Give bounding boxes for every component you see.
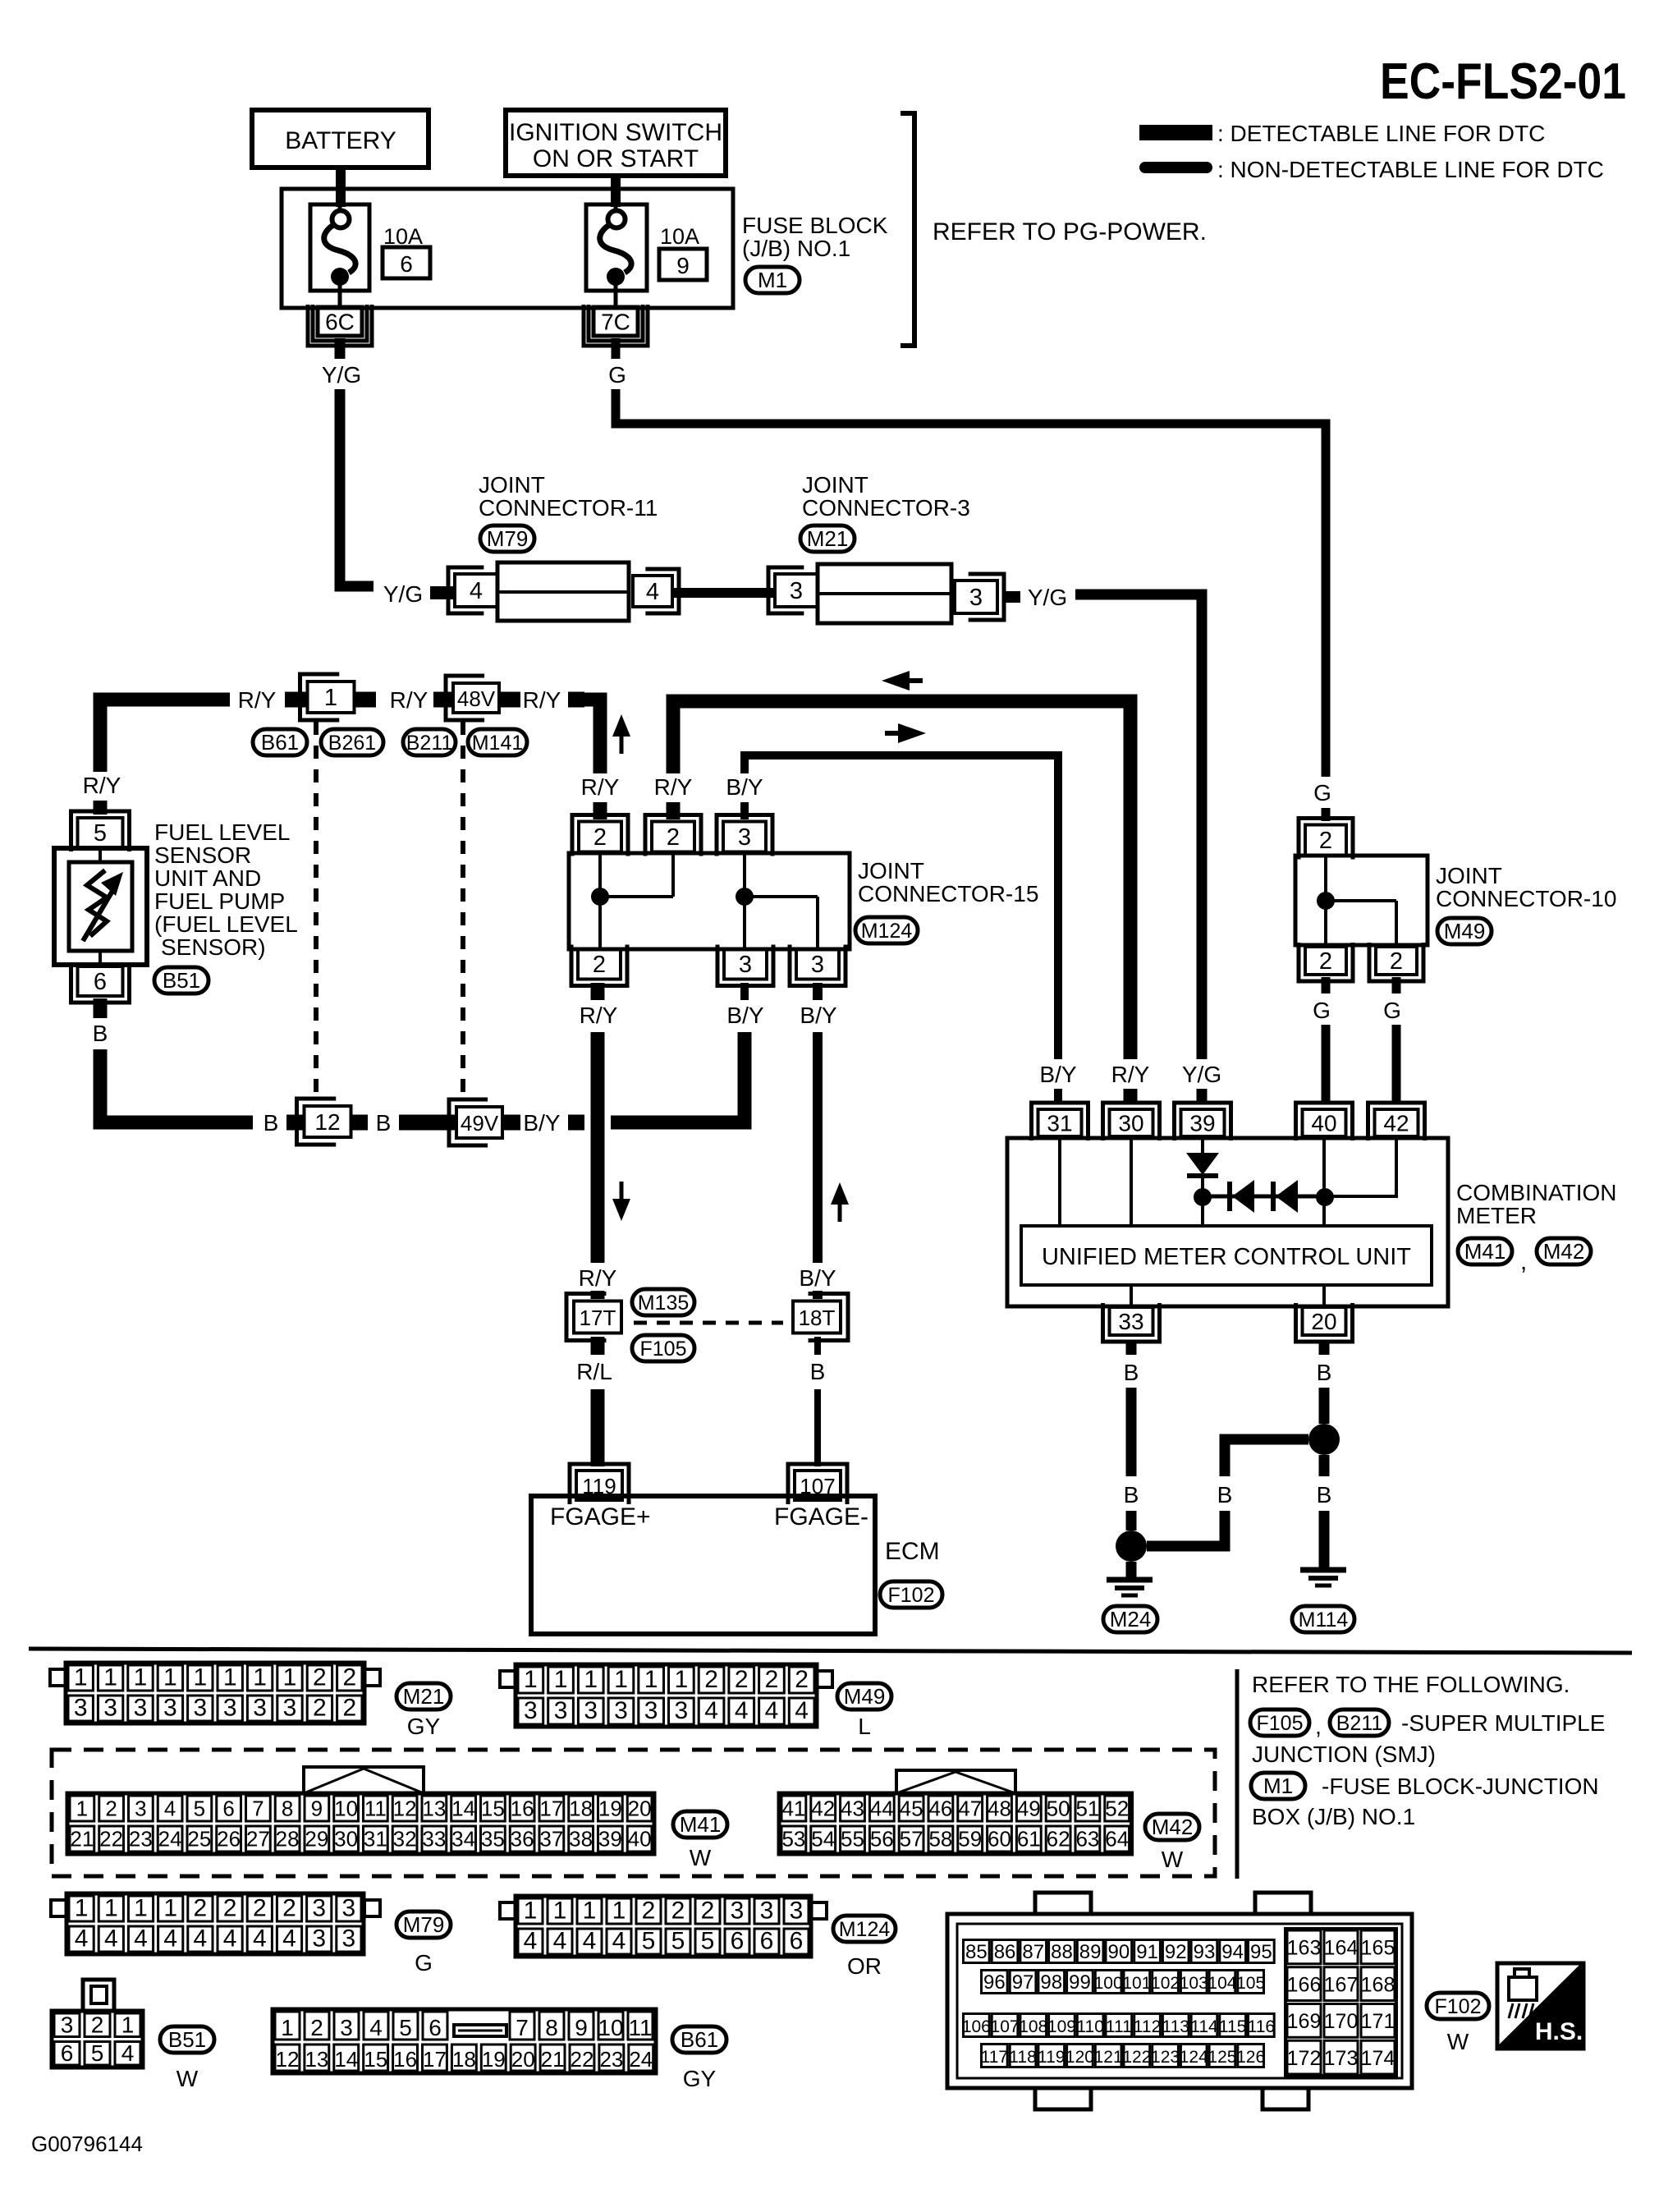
svg-text:125: 125 [1208,2048,1236,2067]
svg-text:1: 1 [524,1666,538,1693]
svg-text:4: 4 [164,1797,176,1821]
fuse F9 number box 9 [659,249,707,280]
svg-text:6: 6 [760,1928,774,1955]
svg-text:3: 3 [738,824,751,851]
svg-text:(FUEL LEVEL: (FUEL LEVEL [154,911,298,937]
svg-text:2: 2 [194,1895,208,1922]
connector view M41 oval [673,1811,727,1838]
svg-text:48V: 48V [457,686,496,711]
svg-text:4: 4 [553,1928,567,1955]
svg-text:3: 3 [790,1898,804,1925]
svg-text:R/Y: R/Y [523,687,561,713]
joint connector-10 pin 2b bottom [1376,947,1417,975]
svg-text:M21: M21 [807,526,849,551]
svg-text:G: G [1313,998,1331,1023]
svg-text:39: 39 [598,1827,622,1852]
joint connector-3 oval M21 [800,525,855,552]
svg-text:10: 10 [334,1797,358,1821]
svg-text:JOINT: JOINT [1436,863,1502,888]
svg-text:116: 116 [1248,2017,1275,2036]
wire B/Y M124 to 18T [813,1032,823,1263]
svg-text:3: 3 [969,585,983,611]
dashed line 17T-18T [634,1321,783,1325]
separator line [29,1649,1632,1653]
svg-text:33: 33 [422,1827,446,1852]
svg-text:5: 5 [701,1928,715,1955]
svg-text:60: 60 [988,1827,1011,1852]
svg-text:1: 1 [283,1664,297,1691]
joint connector-10 pin 2 top [1305,825,1346,856]
joint connector-15 body [569,853,850,949]
connector 7C [593,307,638,336]
meter internal diode down [1201,1138,1204,1153]
svg-text:FUEL LEVEL: FUEL LEVEL [154,819,290,845]
fuel level sensor resistor [87,870,107,936]
wire R/Y stub below M124 pin 2 [591,983,605,1000]
svg-text:B261: B261 [328,732,376,755]
fuse F6 number box 6 [383,247,430,278]
svg-text:B: B [264,1110,279,1136]
joint connector-11 body [497,562,629,621]
svg-text:15: 15 [481,1797,505,1821]
svg-text:M42: M42 [1543,1239,1585,1264]
svg-text:13: 13 [422,1797,446,1821]
svg-text:2: 2 [313,1695,327,1722]
svg-text:M114: M114 [1299,1609,1349,1631]
svg-text:M124: M124 [839,1918,891,1941]
svg-text:G: G [1313,780,1331,805]
svg-text:16: 16 [393,2047,417,2072]
wire B to ground M114 [1319,1511,1330,1567]
wire B stub c [399,1115,455,1131]
svg-text:99: 99 [1069,1971,1091,1994]
wire stub into M124 pin3a [740,802,749,819]
svg-text:10A: 10A [660,224,699,249]
svg-text:23: 23 [129,1827,153,1852]
wire ignition to fuse block [611,176,621,207]
svg-text:SENSOR): SENSOR) [161,934,266,960]
wire Y/G stub below 6C [335,338,346,359]
meter internal line 30 [1130,1138,1133,1226]
wire R/Y stub e [568,692,584,708]
svg-text:48: 48 [988,1797,1011,1821]
svg-text:3: 3 [312,1925,326,1953]
svg-text:55: 55 [841,1827,864,1852]
svg-text:1: 1 [193,1664,207,1691]
svg-text:2: 2 [667,824,680,851]
wire B stub below pin 6 [94,998,108,1018]
wire G to right [616,389,1326,777]
svg-text:M79: M79 [487,526,529,551]
svg-text:3: 3 [135,1797,146,1821]
svg-text:4: 4 [470,578,483,604]
svg-text:BOX (J/B) NO.1: BOX (J/B) NO.1 [1252,1804,1415,1829]
connector view M124 oval [833,1916,896,1942]
connector view F102 [947,1914,1412,2088]
oval M141 [468,729,527,755]
svg-text:90: 90 [1107,1941,1130,1963]
wire B/Y into 18T [813,1291,823,1299]
wire R/Y into 17T [591,1291,605,1299]
ECM oval F102 [880,1581,942,1608]
connector view M41 bracket [304,1767,424,1793]
dashed line B211-M141 [461,722,465,1099]
wire G into pin 40 [1322,1059,1331,1104]
svg-text:64: 64 [1105,1827,1129,1852]
meter oval M42 [1537,1238,1591,1264]
ECM pin 107 [795,1471,841,1500]
joint connector-3 body [818,564,951,623]
svg-text:ECM: ECM [885,1538,940,1565]
arrow left on R/Y line [882,671,910,691]
meter pin 39 [1181,1109,1225,1136]
fuel level sensor pin 5 [78,818,123,847]
wire B stub a [286,1115,305,1131]
meter pin 40 [1303,1109,1346,1136]
svg-text:111: 111 [1106,2017,1132,2036]
svg-text:117: 117 [981,2048,1008,2067]
svg-text:-SUPER MULTIPLE: -SUPER MULTIPLE [1401,1710,1605,1736]
svg-text:,: , [1315,1714,1322,1739]
joint connector-15 pin 2b top [652,822,694,852]
svg-text:4: 4 [194,1925,208,1953]
fuel level sensor oval B51 [154,967,209,994]
meter internal line 40 [1322,1138,1326,1226]
svg-text:M24: M24 [1110,1607,1152,1631]
svg-text:EC-FLS2-01: EC-FLS2-01 [1380,53,1626,110]
joint connector-15 oval M124 [855,917,918,943]
svg-text:123: 123 [1151,2048,1180,2067]
connector view F102 oval [1427,1993,1489,2019]
svg-text:3: 3 [554,1697,568,1724]
inline connector 1 B61-B261 [308,681,355,713]
svg-text:B211: B211 [406,732,453,755]
svg-text:G: G [415,1950,433,1976]
oval B61 [253,729,307,755]
svg-text:110: 110 [1076,2017,1103,2036]
wire B lower [814,1389,821,1466]
svg-text:4: 4 [163,1925,177,1953]
wire stub to ground M24 [1126,1562,1137,1577]
svg-text:1: 1 [163,1895,177,1922]
svg-text:(J/B) NO.1: (J/B) NO.1 [742,236,850,261]
joint connector-15 pin 2a top [579,822,621,852]
svg-text:1: 1 [223,1664,237,1691]
svg-text:2: 2 [91,2012,104,2037]
svg-text:63: 63 [1075,1827,1099,1852]
svg-text:Y/G: Y/G [322,362,361,388]
svg-text:R/Y: R/Y [390,687,428,713]
svg-text:B/Y: B/Y [800,1003,836,1028]
wire G stub into M49 pin [1322,808,1331,821]
combination meter box [1007,1138,1448,1306]
svg-text:88: 88 [1051,1941,1073,1963]
svg-text:CONNECTOR-10: CONNECTOR-10 [1436,886,1616,911]
wire R/Y corner down to M124 [584,700,600,773]
joint connector-15 internal wiring [598,853,602,949]
svg-text:FGAGE-: FGAGE- [774,1503,868,1531]
svg-text:94: 94 [1221,1941,1244,1963]
svg-text:2: 2 [735,1666,749,1693]
svg-text:3: 3 [193,1695,207,1722]
svg-text:Y/G: Y/G [1028,585,1067,610]
svg-text:22: 22 [571,2047,594,2072]
meter internal line 20 [1322,1285,1326,1306]
wire B/Y horizontal [745,755,1058,1059]
wire B stub b [351,1115,368,1131]
svg-text:18: 18 [569,1797,593,1821]
svg-text:174: 174 [1361,2047,1395,2070]
svg-text:126: 126 [1236,2048,1265,2067]
svg-text:M41: M41 [680,1812,722,1837]
svg-text:4: 4 [795,1697,809,1724]
wire G lower to pin 42 [1392,1025,1401,1059]
joint connector-15 pin 3a top [723,822,766,852]
svg-text:M79: M79 [403,1912,445,1937]
meter pin 20 [1303,1307,1346,1335]
meter internal line 33 [1130,1285,1133,1306]
svg-text:30: 30 [334,1827,358,1852]
svg-text:3: 3 [811,952,824,978]
svg-text:2: 2 [1319,828,1332,854]
wire R/Y stub into pin 5 [94,801,108,815]
svg-text:M49: M49 [1444,919,1486,943]
svg-text:1: 1 [253,1664,267,1691]
svg-text:2: 2 [313,1664,327,1691]
svg-text:24: 24 [629,2047,653,2072]
svg-text:FUEL PUMP: FUEL PUMP [154,888,285,914]
svg-text:1: 1 [75,1895,89,1922]
junction dot right [1308,1424,1340,1455]
svg-text:7: 7 [516,2015,529,2040]
svg-text:119: 119 [1038,2048,1065,2067]
wire B mid left [1126,1388,1137,1476]
svg-text:2: 2 [593,824,607,851]
wire Y/G to meter pin 39 [1075,594,1202,1059]
legend detectable line bar [1139,125,1212,140]
svg-text:5: 5 [399,2015,412,2040]
svg-text:122: 122 [1122,2048,1151,2067]
svg-text:164: 164 [1324,1937,1359,1960]
svg-text:IGNITION SWITCH: IGNITION SWITCH [509,119,722,146]
svg-text:2: 2 [282,1895,296,1922]
svg-text:120: 120 [1066,2048,1094,2067]
svg-text:3: 3 [675,1697,689,1724]
svg-text:B: B [93,1021,108,1046]
joint connector-3 pin 3 right [955,581,997,613]
svg-text:2: 2 [342,1695,356,1722]
svg-text:54: 54 [811,1827,835,1852]
connector view B61 oval [672,2026,726,2053]
svg-text:BATTERY: BATTERY [285,127,396,154]
wire B below pin 20 [1319,1341,1330,1355]
svg-text:11: 11 [364,1797,387,1821]
svg-text:32: 32 [393,1827,417,1852]
ground oval M24 [1103,1606,1157,1632]
ground oval M114 [1292,1606,1354,1632]
svg-text:3: 3 [163,1695,177,1722]
svg-text:1: 1 [675,1666,689,1693]
oval F105 [632,1335,694,1361]
svg-text:G: G [608,362,626,388]
svg-text:JOINT: JOINT [858,858,924,883]
svg-text:1: 1 [104,1895,118,1922]
svg-text:33: 33 [1118,1309,1143,1334]
fuse F9 10A [586,204,647,291]
svg-text:14: 14 [451,1797,475,1821]
oval F105 ref [1250,1709,1309,1736]
joint connector-15 pin 3a bottom [724,949,767,980]
svg-text:29: 29 [305,1827,328,1852]
svg-text:4: 4 [704,1697,718,1724]
svg-text:B/Y: B/Y [799,1265,836,1291]
svg-text:6: 6 [790,1928,804,1955]
svg-text:12: 12 [393,1797,417,1821]
svg-text:OR: OR [847,1953,882,1979]
svg-text:JOINT: JOINT [802,472,868,498]
svg-text:3: 3 [342,1895,356,1922]
svg-text:W: W [1447,2029,1469,2054]
svg-text:6: 6 [61,2040,74,2066]
ignition switch S1 [506,110,726,176]
wire Y/G stub into M79 [430,586,453,599]
svg-text:4: 4 [765,1697,779,1724]
svg-text:REFER TO PG-POWER.: REFER TO PG-POWER. [933,218,1207,246]
connector view M42 [779,1793,1132,1854]
svg-text:103: 103 [1180,1974,1208,1993]
svg-text:UNIFIED METER CONTROL UNIT: UNIFIED METER CONTROL UNIT [1042,1244,1411,1270]
svg-text:1: 1 [324,685,337,711]
svg-text:3: 3 [739,952,752,978]
wire stub into M124 pin2b [667,802,681,819]
svg-text:98: 98 [1040,1971,1062,1994]
svg-text:METER: METER [1456,1203,1537,1228]
joint connector-10 body [1295,856,1428,945]
svg-text:1: 1 [134,1664,148,1691]
svg-text:B/Y: B/Y [523,1110,560,1136]
svg-text:B51: B51 [168,2027,206,2052]
svg-text:96: 96 [983,1971,1006,1994]
svg-text:1: 1 [584,1666,598,1693]
svg-text:4: 4 [223,1925,237,1953]
svg-text:B51: B51 [163,968,200,993]
svg-text:92: 92 [1165,1941,1187,1963]
svg-text:CONNECTOR-15: CONNECTOR-15 [858,881,1038,906]
svg-text:52: 52 [1105,1797,1129,1821]
svg-text:62: 62 [1047,1827,1070,1852]
svg-text:28: 28 [276,1827,300,1852]
svg-text:1: 1 [524,1898,538,1925]
legend non-detectable line bar [1139,162,1212,173]
svg-text:2: 2 [642,1898,656,1925]
svg-text:2: 2 [253,1895,267,1922]
wire B/Y stub below M124 pin 3a [740,983,749,1000]
svg-text:95: 95 [1250,1941,1272,1963]
svg-text:36: 36 [511,1827,534,1852]
junction dot left [1116,1531,1147,1562]
svg-text:45: 45 [900,1797,923,1821]
wire R/Y M124 to 17T [591,1032,605,1263]
joint connector-3 pin 3 left [775,574,818,607]
svg-text:37: 37 [539,1827,563,1852]
svg-text:59: 59 [958,1827,982,1852]
svg-text:1: 1 [644,1666,658,1693]
joint connector-11 pin 4 right [633,576,672,607]
svg-text:46: 46 [928,1797,952,1821]
svg-text:50: 50 [1047,1797,1070,1821]
wire R/Y thick horizontal [673,701,1130,1059]
wire G lower to pin 40 [1322,1025,1331,1059]
svg-text:7C: 7C [601,310,630,335]
svg-text:168: 168 [1361,1973,1395,1996]
svg-text:B: B [1124,1482,1139,1508]
svg-text:5: 5 [91,2040,104,2066]
svg-text:42: 42 [811,1797,835,1821]
svg-text:M1: M1 [758,268,787,292]
svg-text:11: 11 [628,2015,652,2040]
wire Y/G into pin 39 [1197,1089,1208,1104]
svg-text:,: , [1520,1248,1527,1275]
svg-text:10: 10 [598,2015,623,2040]
connector view M41 [67,1793,654,1854]
meter internal line 31 [1058,1138,1061,1226]
svg-text:165: 165 [1361,1937,1395,1960]
svg-text:FGAGE+: FGAGE+ [550,1503,651,1531]
wire B/Y stub d [502,1115,520,1131]
svg-text:UNIT AND: UNIT AND [154,865,261,891]
svg-text:166: 166 [1287,1973,1322,1996]
svg-text:B: B [376,1110,392,1136]
svg-text:56: 56 [870,1827,894,1852]
svg-text:4: 4 [134,1925,148,1953]
svg-text:4: 4 [612,1928,626,1955]
svg-text:15: 15 [364,2047,387,2072]
svg-text:F102: F102 [888,1584,935,1607]
svg-text:1: 1 [614,1666,628,1693]
svg-text:1: 1 [76,1797,88,1821]
svg-text:97: 97 [1012,1971,1034,1994]
svg-text:12: 12 [314,1109,340,1135]
wire Y/G stub after M21 [1004,591,1020,603]
svg-text:ON OR START: ON OR START [533,145,699,172]
svg-text:JUNCTION (SMJ): JUNCTION (SMJ) [1252,1742,1436,1767]
svg-text:14: 14 [334,2047,358,2072]
svg-text:W: W [1162,1847,1184,1872]
svg-text:118: 118 [1009,2048,1036,2067]
wire B 18T to ECM [814,1337,821,1355]
svg-text:CONNECTOR-11: CONNECTOR-11 [479,495,658,521]
svg-text:3: 3 [223,1695,237,1722]
svg-text:3: 3 [731,1898,745,1925]
svg-text:6: 6 [222,1797,234,1821]
fuel level sensor body [54,848,147,965]
connector view M79 oval [396,1911,451,1938]
wire B from B51 pin 6 [100,1049,253,1122]
svg-text:Y/G: Y/G [383,581,423,607]
meter pin 33 [1110,1307,1153,1335]
meter oval M41 [1458,1238,1512,1264]
joint connector-10 oval M49 [1437,918,1492,944]
svg-text:B/Y: B/Y [1039,1062,1076,1087]
svg-text:B: B [1217,1482,1233,1508]
wire B/Y corner up to M124 [611,1032,745,1122]
dashed box M41 M42 [52,1750,1215,1876]
svg-text:6C: 6C [325,310,355,335]
svg-text:M135: M135 [638,1292,690,1315]
svg-text:M141: M141 [472,732,524,755]
svg-text:4: 4 [524,1928,538,1955]
meter pin 31 [1038,1109,1082,1136]
